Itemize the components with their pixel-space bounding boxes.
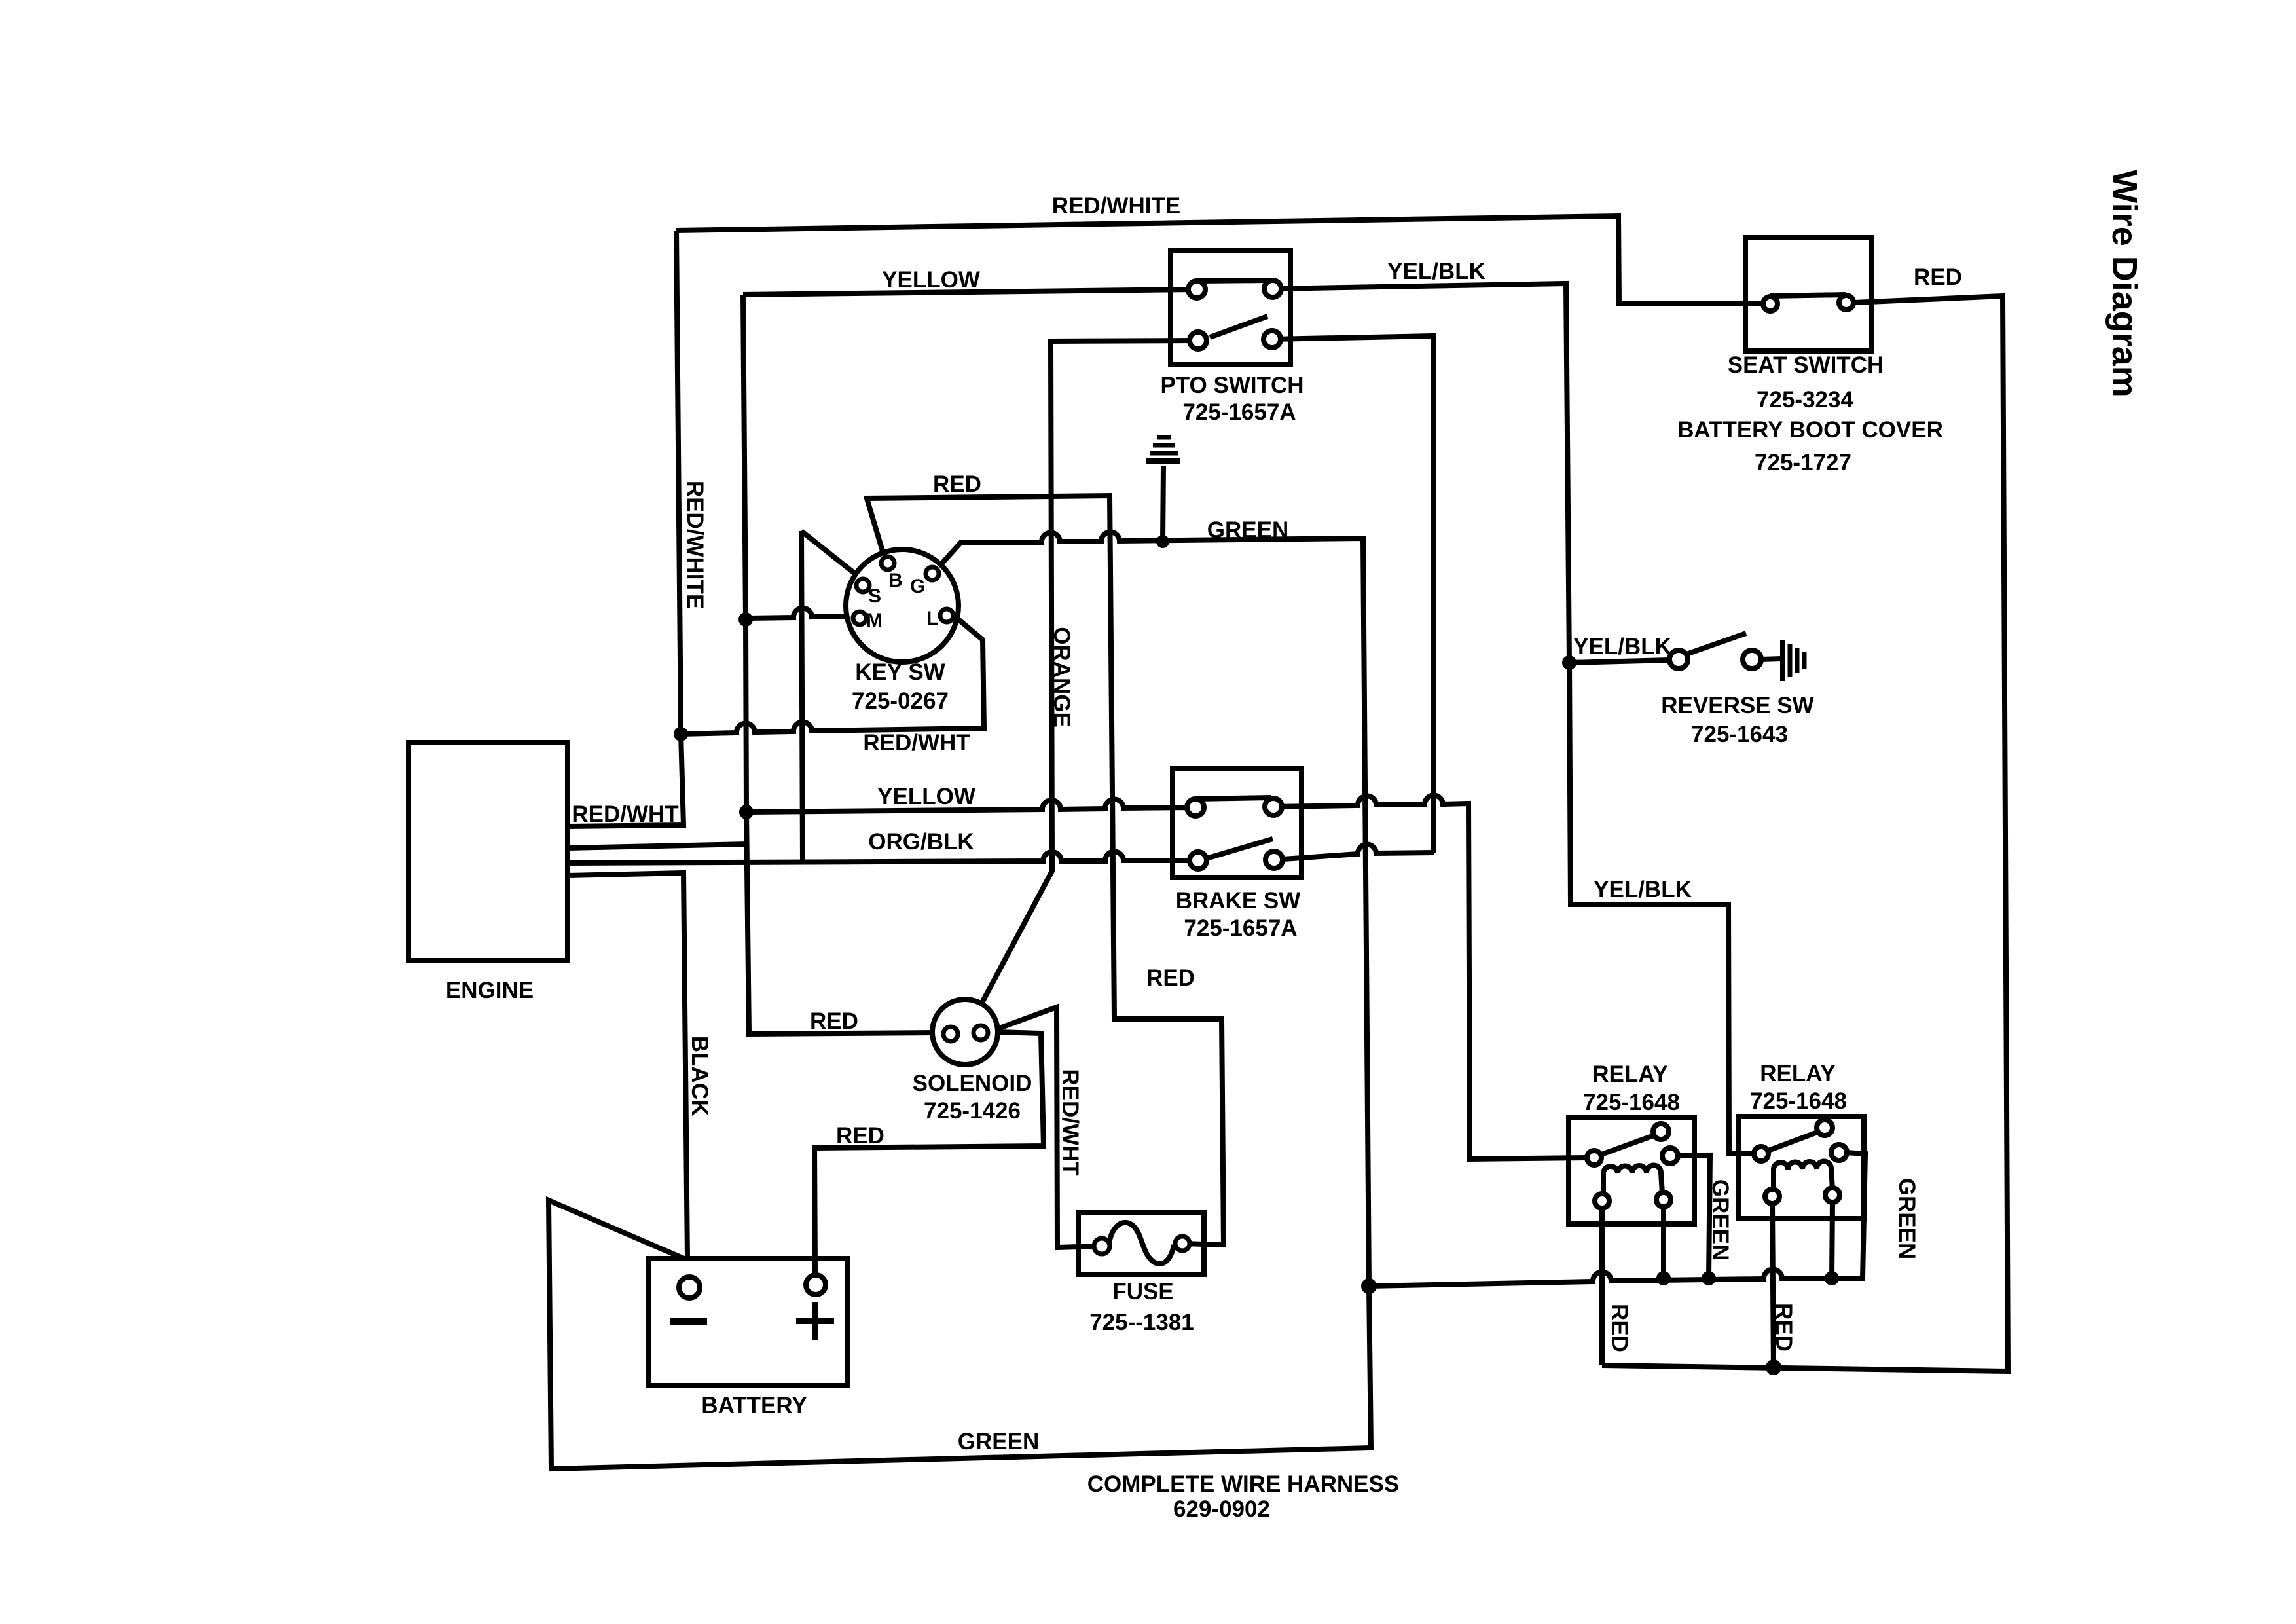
svg-text:RED/WHT: RED/WHT (572, 802, 678, 827)
svg-text:PTO SWITCH: PTO SWITCH (1160, 373, 1303, 398)
svg-text:BRAKE SW: BRAKE SW (1176, 888, 1301, 913)
svg-text:725-1426: 725-1426 (924, 1098, 1021, 1124)
svg-text:RED/WHT: RED/WHT (1057, 1069, 1083, 1175)
svg-text:RED: RED (1771, 1303, 1796, 1352)
svg-text:GREEN: GREEN (1207, 517, 1288, 543)
svg-text:YELLOW: YELLOW (877, 784, 975, 809)
svg-text:REVERSE SW: REVERSE SW (1661, 693, 1813, 718)
svg-text:725-3234: 725-3234 (1757, 387, 1853, 413)
svg-text:725-1657A: 725-1657A (1184, 915, 1297, 941)
svg-text:RELAY: RELAY (1592, 1061, 1667, 1087)
svg-text:SEAT SWITCH: SEAT SWITCH (1728, 352, 1884, 378)
svg-text:RELAY: RELAY (1760, 1061, 1835, 1086)
svg-text:M: M (866, 610, 883, 631)
svg-text:725-1727: 725-1727 (1755, 450, 1851, 475)
svg-text:RED/WHITE: RED/WHITE (1052, 193, 1180, 219)
svg-text:RED/WHT: RED/WHT (863, 730, 970, 756)
svg-text:ENGINE: ENGINE (446, 978, 534, 1003)
svg-text:RED: RED (836, 1123, 884, 1149)
svg-text:BLACK: BLACK (687, 1036, 712, 1116)
svg-text:ORANGE: ORANGE (1049, 627, 1074, 728)
svg-text:725-1643: 725-1643 (1691, 722, 1788, 747)
svg-text:KEY SW: KEY SW (855, 659, 945, 685)
svg-text:YEL/BLK: YEL/BLK (1594, 877, 1692, 902)
svg-text:RED: RED (933, 471, 981, 497)
svg-text:FUSE: FUSE (1112, 1279, 1173, 1304)
svg-text:Wire Diagram: Wire Diagram (2105, 170, 2144, 397)
svg-text:S: S (868, 585, 881, 607)
svg-text:GREEN: GREEN (1707, 1179, 1733, 1261)
svg-text:YEL/BLK: YEL/BLK (1573, 634, 1671, 659)
svg-text:GREEN: GREEN (1894, 1178, 1920, 1259)
svg-text:725-0267: 725-0267 (852, 688, 949, 714)
svg-text:725-1657A: 725-1657A (1182, 399, 1296, 425)
svg-text:COMPLETE WIRE HARNESS: COMPLETE WIRE HARNESS (1087, 1471, 1399, 1497)
svg-text:RED: RED (1914, 265, 1962, 290)
svg-text:YEL/BLK: YEL/BLK (1387, 259, 1485, 284)
svg-text:RED/WHITE: RED/WHITE (682, 481, 708, 609)
svg-text:RED: RED (1146, 965, 1195, 991)
svg-text:629-0902: 629-0902 (1173, 1496, 1270, 1522)
svg-text:SOLENOID: SOLENOID (913, 1071, 1032, 1096)
svg-text:725-1648: 725-1648 (1750, 1088, 1847, 1114)
svg-text:B: B (888, 570, 903, 591)
svg-text:YELLOW: YELLOW (882, 267, 980, 293)
svg-text:RED: RED (1607, 1304, 1632, 1352)
svg-text:RED: RED (810, 1008, 858, 1034)
svg-text:725--1381: 725--1381 (1089, 1310, 1194, 1335)
svg-text:725-1648: 725-1648 (1583, 1090, 1680, 1115)
svg-text:G: G (910, 576, 925, 597)
svg-text:ORG/BLK: ORG/BLK (868, 829, 974, 855)
svg-text:L: L (926, 608, 938, 629)
svg-text:BATTERY: BATTERY (701, 1393, 807, 1418)
svg-text:BATTERY BOOT COVER: BATTERY BOOT COVER (1677, 417, 1943, 443)
svg-text:GREEN: GREEN (958, 1429, 1039, 1454)
